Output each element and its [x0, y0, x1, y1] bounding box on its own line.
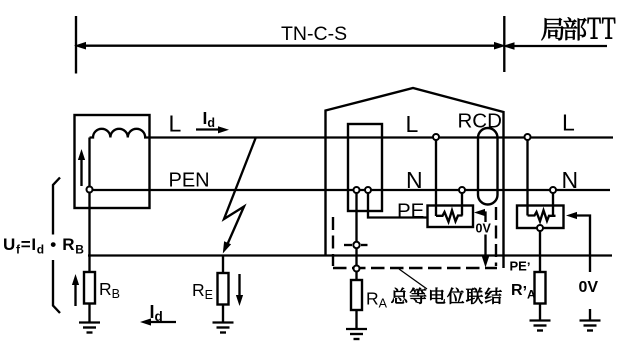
ground RB	[79, 323, 100, 333]
svg-text:TN-C-S: TN-C-S	[281, 23, 347, 45]
dimension arrow 局部TT (leader)	[503, 42, 608, 50]
wire load1 L lead	[435, 140, 437, 216]
main earthing terminal	[344, 244, 368, 246]
transformer winding coil	[90, 129, 151, 138]
wire PEN earthing conductor	[355, 193, 357, 242]
svg-text:PE: PE	[397, 200, 424, 223]
node on bonding line	[354, 266, 360, 272]
node N tap load1	[459, 187, 465, 193]
node N terminal 2	[365, 187, 371, 193]
svg-text:L: L	[562, 110, 575, 136]
wire load2 N lead	[552, 193, 554, 216]
dimension tick right	[503, 16, 505, 72]
arrow Id left	[140, 318, 176, 325]
wire RB to ground	[88, 304, 90, 323]
node N tap load2	[550, 187, 556, 193]
resistor RA2	[535, 272, 546, 304]
bonding zone dashed bottom	[333, 267, 497, 269]
wire RA to ground	[355, 310, 357, 329]
wire transformer earth drop	[88, 193, 90, 273]
label 0V building	[475, 222, 492, 236]
wire earth line to RE	[222, 256, 224, 274]
label 0V right	[578, 272, 601, 309]
svg-text:Uf=Id • RB: Uf=Id • RB	[3, 235, 85, 257]
arrow up at RB	[72, 274, 79, 306]
wire RA2 to ground	[539, 304, 541, 321]
bonding zone dashed left	[332, 217, 334, 266]
wire load2 L lead	[526, 140, 528, 216]
wire L line	[149, 136, 613, 138]
node L tap load2	[525, 134, 531, 140]
arrow up inside transformer	[78, 149, 85, 186]
ground RE	[213, 323, 234, 333]
RCD toroid	[478, 128, 498, 205]
node load2 PE terminal	[537, 225, 543, 231]
svg-text:PE’: PE’	[510, 259, 531, 275]
label 局部TT	[542, 17, 616, 40]
wire PEN/N line	[92, 189, 610, 191]
arrow down at RE	[236, 274, 243, 306]
load2 heating element	[528, 210, 556, 221]
dimension arrow TN-C-S	[74, 42, 506, 50]
ground 0V	[580, 321, 601, 331]
wire earth line	[88, 254, 612, 256]
wire load2 PE down	[539, 231, 541, 272]
pointer line	[399, 269, 427, 289]
node PEN terminal	[87, 187, 93, 193]
wire coil left drop	[88, 138, 90, 187]
wire MET down	[355, 248, 357, 265]
wire load1 N lead	[461, 193, 463, 216]
svg-text:RCD: RCD	[458, 110, 502, 133]
label 总等电位联结	[391, 288, 501, 304]
distribution box	[348, 124, 382, 211]
svg-text:PEN: PEN	[169, 170, 210, 192]
ground RA	[346, 329, 367, 339]
load2 appliance box	[517, 206, 564, 229]
bonding zone dashed right	[495, 207, 497, 266]
transformer T1 box	[75, 115, 150, 208]
svg-text:L: L	[406, 111, 419, 137]
svg-text:L: L	[169, 111, 182, 137]
wire RE to ground	[222, 305, 224, 323]
fault arrow (lightning bolt)	[223, 137, 256, 254]
arrow Id right	[196, 126, 229, 133]
load1 appliance box	[428, 206, 474, 228]
node N terminal 1	[354, 187, 360, 193]
svg-text:0V: 0V	[579, 279, 599, 296]
arrow 0V to load2	[566, 212, 590, 320]
wire to RA	[355, 272, 357, 281]
resistor RB	[84, 272, 95, 304]
arrow 0V to load1	[474, 209, 489, 268]
node L tap load1	[433, 134, 439, 140]
resistor RA	[351, 280, 362, 310]
resistor RE	[218, 273, 229, 305]
svg-text:N: N	[406, 167, 423, 193]
building outline	[326, 88, 504, 268]
brace	[53, 178, 60, 314]
dimension tick left	[75, 16, 77, 74]
wire PE	[368, 193, 428, 218]
svg-text:0V: 0V	[476, 222, 492, 236]
svg-text:N: N	[562, 167, 579, 193]
ground RA2	[530, 321, 551, 331]
load1 heating element	[436, 210, 463, 222]
